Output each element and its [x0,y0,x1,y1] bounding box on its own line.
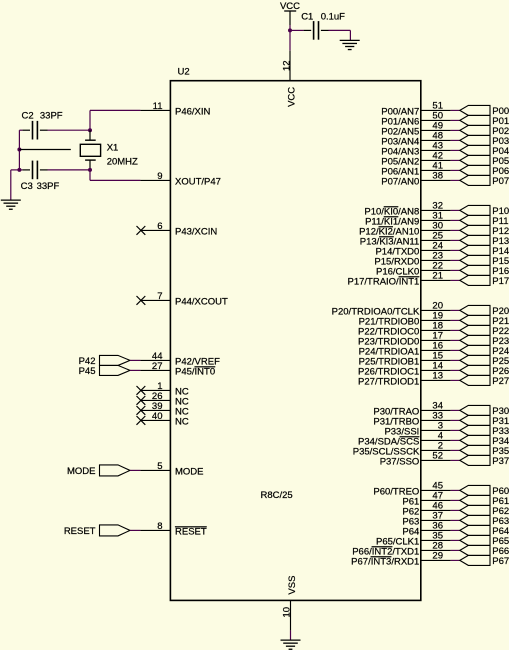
no-connect X pin 40 [137,416,146,425]
pin 13 port 2 row 7: P27 [358,371,460,388]
pin 23 port 1 row 5: P15 [374,251,459,268]
svg-text:8: 8 [157,521,162,532]
port tag P67 [460,555,509,567]
ground for crystal [1,200,21,209]
no-connect X pin 7 [137,296,146,305]
wire MODE [130,469,140,471]
port tag P02 [460,125,509,137]
pin 45 port 6 row 0: P60 [373,481,459,498]
svg-text:P45/INT0: P45/INT0 [175,366,215,377]
port tag P00 [460,105,509,117]
svg-text:6: 6 [157,221,162,232]
no-connect X pin 6 [137,226,146,235]
port tag P20 [460,305,509,317]
svg-text:P46/XIN: P46/XIN [175,106,211,117]
port tag P24 [460,345,509,357]
no-connect X pin 26 [137,396,146,405]
svg-text:C3: C3 [21,181,33,192]
pin number 12 [281,60,292,71]
no-connect X pin 39 [137,406,146,415]
svg-text:P43/XCIN: P43/XCIN [175,226,217,237]
IC U2 R8C/25 body [170,81,420,601]
junction crystal bottom [88,168,92,172]
svg-text:P37: P37 [492,456,509,467]
pin 46 port 6 row 2: P62 [402,501,459,518]
port tag P30 [460,405,509,417]
pin 52 port 3 row 5: P37 [380,451,460,468]
pin 22 port 1 row 6: P16 [376,261,460,278]
svg-text:P17/TRAIO/INT1: P17/TRAIO/INT1 [347,276,419,287]
port tag P12 [460,225,509,237]
svg-text:R8C/25: R8C/25 [261,490,293,501]
pin 28 port 6 row 6: P66 [352,541,460,558]
ground for VSS [281,640,301,649]
pin 27 P45/INT0 [140,361,215,378]
port tag P27 [460,375,509,387]
pin 16 port 2 row 4: P24 [359,341,460,358]
port tag P06 [460,165,509,177]
port tag P34 [460,435,509,447]
wire C1 right to ground [321,30,351,40]
pin 25 port 1 row 3: P13 [360,231,460,248]
pin 48 port 0 row 3: P03 [381,131,460,148]
pin 43 port 0 row 4: P04 [381,141,460,158]
svg-text:C1: C1 [301,12,313,23]
svg-text:12: 12 [281,60,292,71]
capacitor C2 [22,121,47,140]
pin 26 NC [141,391,189,408]
port tag P10 [460,205,509,217]
svg-text:MODE: MODE [67,466,96,477]
svg-text:P44/XCOUT: P44/XCOUT [175,296,228,307]
port tag P14 [460,245,509,257]
port tag P60 [460,485,509,497]
X1 labels X1 20MHZ [107,143,138,168]
port tag P62 [460,505,509,517]
pin 10 VSS stub [290,600,292,630]
pin 8 RESET [140,521,206,538]
pin 12 VCC stub [289,51,291,81]
svg-text:0.1uF: 0.1uF [321,12,345,23]
svg-text:U2: U2 [178,67,190,78]
wire C1 left lead [290,29,311,31]
svg-text:NC: NC [175,416,189,427]
pin number 10 [282,607,293,618]
pin 15 port 2 row 5: P25 [359,351,460,368]
C1 labels C1 0.1uF [301,12,345,23]
port tag P42 [79,355,130,367]
pin name VCC (vertical) [286,87,297,107]
port tag RESET [64,525,130,537]
no-connect X pin 1 [137,386,146,395]
svg-text:P07/AN0: P07/AN0 [381,176,419,187]
port tag P21 [460,315,509,327]
pin 36 port 6 row 4: P64 [402,521,459,538]
pin 35 port 6 row 5: P65 [376,531,460,548]
svg-text:MODE: MODE [175,466,204,477]
port tag P66 [460,545,509,557]
pin 4 port 3 row 3: P34 [358,431,460,448]
svg-text:5: 5 [157,461,162,472]
svg-text:9: 9 [157,171,162,182]
svg-text:P07: P07 [492,176,509,187]
port tag P22 [460,325,509,337]
pin 44 P42/VREF [140,351,220,368]
svg-text:33PF: 33PF [37,181,60,192]
pin 18 port 2 row 2: P22 [358,321,460,338]
junction C3 rail [17,168,21,172]
pin 1 NC [141,381,189,398]
pin 6 P43/XCIN [141,221,217,238]
port tag P04 [460,145,509,157]
wire C2 to rail [19,130,22,170]
port tag P45 [79,365,130,377]
pin 31 port 1 row 1: P11 [365,211,460,228]
svg-text:RESET: RESET [64,526,96,537]
junction VCC/C1 [288,28,292,32]
port tag MODE [67,465,130,477]
svg-text:P17: P17 [492,276,509,287]
svg-text:VCC: VCC [286,87,297,107]
pin 42 port 0 row 5: P05 [381,151,460,168]
svg-text:52: 52 [432,451,443,462]
junction rail stub [17,148,21,152]
svg-text:X1: X1 [107,143,119,154]
wire XOUT net [90,170,140,181]
pin 11 P46/XIN [140,101,210,118]
pin 37 port 6 row 3: P63 [402,511,459,528]
svg-text:P45: P45 [79,366,96,377]
port tag P63 [460,515,509,527]
pin 19 port 2 row 1: P21 [359,311,460,328]
port tag P16 [460,265,509,277]
wire P42 [130,359,140,361]
port tag P03 [460,135,509,147]
svg-text:38: 38 [432,171,443,182]
capacitor C1 [314,21,319,40]
capacitor C3 [22,161,47,180]
svg-text:29: 29 [432,551,443,562]
pin 33 port 3 row 1: P31 [373,411,459,428]
svg-text:C2: C2 [22,110,34,121]
svg-text:XOUT/P47: XOUT/P47 [175,176,221,187]
port tag P13 [460,235,509,247]
U2 part value R8C/25 [261,490,293,501]
pin 51 port 0 row 0: P00 [381,101,460,118]
svg-text:P67: P67 [492,556,509,567]
pin 9 XOUT/P47 [140,171,221,188]
svg-text:P27: P27 [492,376,509,387]
port tag P26 [460,365,509,377]
pin name VSS (vertical) [287,576,298,595]
pin 3 port 3 row 2: P33 [384,421,459,438]
port tag P35 [460,445,509,457]
pin 38 port 0 row 7: P07 [381,171,460,188]
svg-text:21: 21 [432,271,443,282]
pin 14 port 2 row 6: P26 [358,361,460,378]
port tag P31 [460,415,509,427]
power symbol VCC [280,1,300,25]
svg-text:20MHZ: 20MHZ [107,156,138,167]
port tag P05 [460,155,509,167]
svg-text:VSS: VSS [287,576,298,595]
wire C3 to ground [11,170,23,200]
port tag P01 [460,115,509,127]
port tag P61 [460,495,509,507]
port tag P33 [460,425,509,437]
port tag P11 [460,215,509,227]
wire stub [19,149,70,151]
svg-text:11: 11 [153,101,163,112]
pin 24 port 1 row 4: P14 [375,241,459,258]
port tag P15 [460,255,509,267]
pin 34 port 3 row 0: P30 [373,401,459,418]
crystal X1 [80,130,100,170]
port tag P64 [460,525,509,537]
wire VSS to ground [290,630,292,640]
wire RESET [130,529,140,531]
port tag P17 [460,275,509,287]
pin 20 port 2 row 0: P20 [332,301,460,318]
pin 41 port 0 row 6: P06 [381,161,460,178]
svg-text:27: 27 [152,361,163,372]
svg-text:40: 40 [152,411,163,422]
pin 7 P44/XCOUT [141,291,228,308]
wire VCC to pin 12 [289,25,291,51]
pin 32 port 1 row 0: P10 [364,201,459,218]
pin 39 NC [141,401,189,418]
svg-text:33PF: 33PF [40,110,63,121]
port tag P07 [460,175,509,187]
pin 29 port 6 row 7: P67 [351,551,460,568]
pin 50 port 0 row 1: P01 [381,111,460,128]
svg-text:13: 13 [432,371,443,382]
C3 labels C3 33PF [21,181,60,192]
C2 labels C2 33PF [22,110,63,121]
junction crystal top [88,128,92,132]
pin 5 MODE [140,461,203,478]
svg-text:10: 10 [282,607,293,618]
ground for C1 [340,40,360,49]
svg-text:P67/INT3/RXD1: P67/INT3/RXD1 [351,556,419,567]
pin 17 port 2 row 3: P23 [358,331,460,348]
port tag P25 [460,355,509,367]
wire XIN to C2 [48,129,91,131]
svg-text:P27/TRDIOD1: P27/TRDIOD1 [358,376,419,387]
svg-text:7: 7 [157,291,162,302]
U2 reference designator [178,67,190,78]
wire XIN net [90,110,140,130]
port tag P23 [460,335,509,347]
port tag P37 [460,455,509,467]
pin 49 port 0 row 2: P02 [381,121,460,138]
svg-text:VCC: VCC [280,1,300,12]
wire XOUT to C3 [48,169,91,171]
pin 2 port 3 row 4: P35 [353,441,460,458]
svg-text:RESET: RESET [175,526,207,537]
wire P45 [130,369,140,371]
pin 21 port 1 row 7: P17 [347,271,459,288]
port tag P65 [460,535,509,547]
pin 40 NC [141,411,189,428]
pin 47 port 6 row 1: P61 [402,491,459,508]
svg-text:P37/SSO: P37/SSO [380,456,420,467]
pin 30 port 1 row 2: P12 [359,221,460,238]
